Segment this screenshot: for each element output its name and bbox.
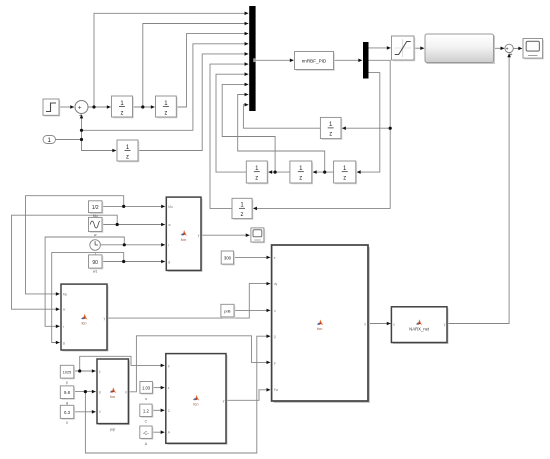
wire sum2 to scope1 — [513, 47, 522, 49]
block UnitDelay7 flipped — [246, 161, 268, 184]
wire saturation to plant — [414, 47, 424, 49]
wire net u(k-1) junction up to mux input8 — [222, 84, 275, 172]
block constant 9.8 — [60, 386, 75, 405]
svg-text:1/2: 1/2 — [92, 205, 99, 211]
block NARX_net — [391, 307, 448, 344]
wire const 300 to big fcn port1 — [234, 256, 271, 258]
block Plant transfer subsystem — [425, 34, 495, 64]
junction demux out2 at UD4 — [389, 127, 392, 130]
svg-text:nnRBF_PID: nnRBF_PID — [302, 59, 327, 64]
svg-text:z: z — [121, 110, 124, 116]
sum Sum2 — [505, 44, 513, 58]
block nnRBF_PID — [295, 52, 335, 71]
wire branch to UD4 flipped — [342, 127, 390, 129]
svg-text:fcn: fcn — [317, 327, 322, 331]
junction node y branch — [80, 129, 83, 132]
wire UD2 out to mux input3 — [176, 34, 248, 107]
wire fcn2 out to big fcn port2 — [107, 284, 270, 319]
block fcn2 MATLAB function — [61, 284, 109, 351]
block pqr MATLAB function — [97, 359, 130, 431]
wire net t branch left down to fcn2 port3 — [45, 237, 124, 326]
block constant 1.2 — [140, 404, 154, 424]
block big fcn MATLAB function — [272, 245, 370, 403]
svg-text:g: g — [63, 341, 65, 345]
block constant 1/2 — [89, 201, 104, 218]
svg-text:s: s — [145, 397, 147, 401]
svg-text:+: + — [506, 47, 509, 53]
svg-text:z: z — [343, 176, 346, 182]
svg-text:1025: 1025 — [63, 371, 71, 375]
svg-text:300: 300 — [224, 255, 232, 260]
junction on const 1/2 output — [122, 205, 125, 208]
svg-text:dy: dy — [274, 282, 278, 286]
block fcn3 MATLAB function — [166, 354, 228, 445]
wire net w branch left down to fcn2 port2 — [12, 215, 118, 309]
svg-text:prB: prB — [224, 308, 231, 313]
svg-text:g: g — [168, 260, 170, 264]
junction on UD6 output — [274, 171, 277, 174]
block constant -C- — [140, 426, 154, 446]
wire net p branch to fcn3 port1 — [80, 356, 165, 371]
block UnitDelay6 flipped — [290, 161, 313, 184]
junction node y at capsule — [80, 138, 83, 141]
wire net u(k-2) junction up to mux input9 — [238, 95, 325, 173]
svg-text:p: p — [274, 361, 276, 365]
svg-text:NARX_net: NARX_net — [409, 327, 430, 332]
wire In1 capsule to node — [56, 139, 82, 141]
svg-text:90: 90 — [92, 260, 98, 266]
block UnitDelay8 flipped — [232, 198, 253, 220]
wire node y down to UD3 — [82, 140, 117, 151]
wire net w1 branch left down to fcn2 port4 — [52, 253, 124, 343]
block fcn1 MATLAB function — [166, 197, 202, 272]
wire NARX out up to sum2 bottom — [447, 54, 509, 324]
wire plant to sum2 — [494, 47, 505, 49]
svg-text:t: t — [63, 325, 64, 329]
svg-text:C: C — [145, 420, 148, 424]
svg-text:Mu: Mu — [168, 205, 173, 209]
svg-text:g: g — [274, 335, 276, 339]
svg-text:z: z — [241, 212, 244, 218]
wire UD8 out to mux input6 — [210, 64, 248, 208]
wire const -C- to fcn3 port4 — [152, 431, 164, 433]
wire const 90 to fcn1 port4 — [102, 261, 165, 263]
block clock — [90, 240, 101, 256]
svg-text:g: g — [99, 390, 101, 394]
svg-text:1.03: 1.03 — [142, 386, 151, 391]
block UnitDelay2 1/z — [156, 96, 178, 118]
junction on sum1 output — [92, 105, 95, 108]
junction on const 1025 output — [78, 369, 81, 372]
svg-text:t: t — [168, 243, 169, 247]
svg-text:0.3: 0.3 — [64, 410, 71, 415]
demux Demux3 — [363, 42, 369, 79]
svg-text:fcn: fcn — [181, 238, 186, 242]
mux Mux10 — [249, 6, 255, 111]
wire nnRBF_PID to demux — [334, 59, 363, 61]
block constant 90 — [89, 255, 104, 274]
junction on clock output — [123, 243, 126, 246]
svg-text:z: z — [255, 176, 258, 182]
svg-text:z: z — [299, 176, 302, 182]
wire const prB to big fcn port3 — [234, 309, 270, 311]
wire node y branch to mux input4 — [82, 44, 249, 131]
sum Sum1 — [75, 101, 88, 120]
wire pqr out to big fcn port5 — [128, 336, 270, 392]
svg-text:Mu: Mu — [63, 292, 68, 296]
wire demux out1 to saturation — [369, 47, 391, 49]
svg-text:p: p — [99, 369, 101, 373]
svg-text:p: p — [168, 364, 170, 368]
svg-text:+: + — [78, 104, 82, 111]
svg-text:z: z — [329, 132, 332, 138]
junction on UD1 output — [141, 105, 144, 108]
wire UD7 out to mux input7 — [216, 74, 248, 172]
inport In1 capsule — [43, 136, 56, 145]
block UnitDelay4 flipped — [320, 117, 342, 139]
block constant 0.3 — [60, 405, 75, 425]
junction on const 9.8 output — [84, 390, 87, 393]
wire const 1.2 to fcn3 port3 — [152, 409, 164, 411]
block constant prB — [221, 304, 235, 318]
scope Scope1 — [523, 39, 544, 60]
junction on const 90 output — [122, 260, 125, 263]
wire UD6 to UD7 — [268, 171, 290, 173]
scope Scope2 — [251, 228, 265, 243]
wire const 9.8 to pqr port2 — [74, 391, 96, 393]
wire UD5 to UD6 — [313, 171, 334, 173]
block constant 1025 — [60, 365, 75, 384]
block constant 1.03 — [140, 382, 154, 402]
junction on UD5 output — [323, 171, 326, 174]
svg-text:+: + — [510, 52, 513, 58]
wire fcn3 out to big fcn port6 — [226, 390, 270, 401]
wire net g branch around bottom to big fcn port4 — [85, 336, 270, 453]
wire node y up into sum1 bottom — [81, 115, 83, 140]
wire sine to fcn1 port2 — [102, 224, 165, 226]
svg-text:z: z — [126, 154, 129, 160]
block UnitDelay1 1/z — [112, 96, 134, 118]
svg-text:u: u — [393, 323, 395, 327]
wire const 0.3 to pqr port3 — [74, 411, 96, 413]
wire big fcn out to NARX — [368, 323, 391, 325]
wire UD3 out to mux input5 — [138, 54, 248, 151]
svg-text:+: + — [79, 113, 83, 120]
svg-text:fcn: fcn — [110, 395, 115, 399]
svg-text:p: p — [66, 381, 68, 385]
wire demux out2 down to UD8 — [253, 60, 390, 208]
svg-text:1.2: 1.2 — [143, 408, 150, 413]
wire const 1/2 to fcn1 port1 — [102, 205, 165, 207]
svg-text:pqr: pqr — [110, 427, 116, 431]
wire sum1 to UD1 — [88, 106, 111, 108]
svg-text:e: e — [274, 256, 276, 260]
block UnitDelay3 1/z — [117, 140, 139, 162]
wire mux out to nnRBF_PID — [256, 59, 294, 61]
block Step input — [43, 99, 60, 117]
wire const 1025 to pqr port1 — [74, 370, 96, 372]
svg-text:w1: w1 — [93, 270, 98, 274]
wire fcn1 out to scope2 — [201, 234, 250, 236]
svg-text:z: z — [164, 110, 167, 116]
svg-text:fcn: fcn — [81, 322, 86, 326]
svg-text:9.8: 9.8 — [64, 390, 71, 395]
wire clock to fcn1 port3 — [101, 244, 165, 246]
block sine wave — [89, 217, 104, 236]
wire net Mu branch left down to fcn2 port1 — [26, 196, 124, 294]
wire net e(k-1) up to mux input2 — [143, 24, 249, 108]
wire UD1 to UD2 — [133, 106, 155, 108]
svg-text:g: g — [66, 401, 68, 405]
wire UD4 out to mux input10 — [243, 105, 320, 129]
wire net e up to mux input1 — [94, 13, 248, 107]
block Saturation — [392, 36, 416, 61]
block UnitDelay5 flipped — [334, 161, 358, 184]
wire const 1.03 to fcn3 port2 — [152, 387, 164, 389]
junction on sine output — [116, 223, 119, 226]
wire step to sum1 — [60, 106, 75, 108]
svg-text:Fw: Fw — [274, 388, 279, 392]
wire demux out3 down to UD5 — [357, 73, 380, 173]
svg-text:w: w — [94, 233, 97, 237]
svg-text:-C-: -C- — [143, 430, 150, 435]
svg-text:u: u — [274, 309, 276, 313]
block constant 300 — [221, 251, 235, 265]
svg-text:fcn: fcn — [193, 403, 198, 407]
